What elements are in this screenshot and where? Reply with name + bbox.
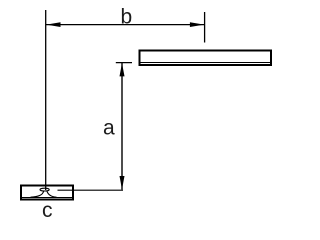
svg-text:b: b [121, 6, 133, 29]
svg-text:c: c [42, 199, 53, 222]
svg-text:a: a [103, 117, 115, 140]
